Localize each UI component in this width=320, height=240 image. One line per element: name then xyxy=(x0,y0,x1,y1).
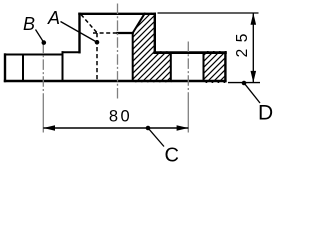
leader line C xyxy=(148,128,164,146)
hatching: hub/web section lines xyxy=(56,0,254,90)
hub left edge xyxy=(78,14,80,52)
step jog xyxy=(62,52,64,54)
left extension line for 80 xyxy=(42,100,44,133)
hidden shoulder left xyxy=(93,32,117,34)
right bolt centerline xyxy=(187,42,189,101)
hidden lines (dashed) xyxy=(81,15,117,82)
right bolt hole left wall xyxy=(170,54,172,81)
body top right xyxy=(155,51,226,54)
left bolt centerline xyxy=(42,43,44,101)
body top left xyxy=(5,54,63,56)
hub right edge xyxy=(154,14,156,52)
svg-text:B: B xyxy=(23,14,35,34)
hatching: right outer section block xyxy=(169,0,307,90)
left inner vertical 2 (step edge) xyxy=(62,55,64,82)
svg-text:D: D xyxy=(258,102,273,125)
bore shoulder (sectioned) xyxy=(118,32,133,34)
right bolt hole right wall xyxy=(203,54,205,81)
right extension line for 80 xyxy=(187,100,189,133)
body bottom xyxy=(5,80,225,82)
svg-text:25: 25 xyxy=(234,27,251,57)
leader dot B xyxy=(42,40,47,45)
leader line A xyxy=(61,22,97,43)
svg-text:80: 80 xyxy=(109,108,132,126)
step top xyxy=(63,51,80,53)
hidden bore wall left xyxy=(96,33,98,81)
extension line bottom (body bottom) xyxy=(228,82,260,84)
main outline of flange xyxy=(5,14,225,81)
hidden countersink cone left xyxy=(81,15,97,33)
dimension 25 xyxy=(158,13,261,83)
arrow up of 25 xyxy=(251,13,257,25)
extension line top (hub top) xyxy=(158,12,259,14)
dimension 80 xyxy=(43,125,188,131)
arrow right of 80 xyxy=(177,125,189,131)
centerlines (chain dash-dot) xyxy=(43,4,188,133)
leader dot A xyxy=(95,40,100,45)
left inner vertical 1 xyxy=(22,55,24,82)
svg-text:C: C xyxy=(165,145,179,164)
svg-text:A: A xyxy=(47,8,60,28)
dimension line 25 xyxy=(252,13,254,83)
leader dot D xyxy=(242,81,247,86)
leader line D xyxy=(244,83,260,103)
main centerline xyxy=(117,4,119,101)
body right edge xyxy=(224,53,226,82)
leader dot C xyxy=(146,126,151,131)
bore wall (sectioned) xyxy=(132,33,134,81)
body left edge xyxy=(4,55,6,82)
arrow left of 80 xyxy=(43,125,55,131)
hub top xyxy=(80,13,155,15)
leader line B xyxy=(36,30,44,42)
countersink cone (sectioned) xyxy=(133,14,145,33)
dimension line 80 xyxy=(43,127,188,129)
arrow down of 25 xyxy=(251,71,257,83)
